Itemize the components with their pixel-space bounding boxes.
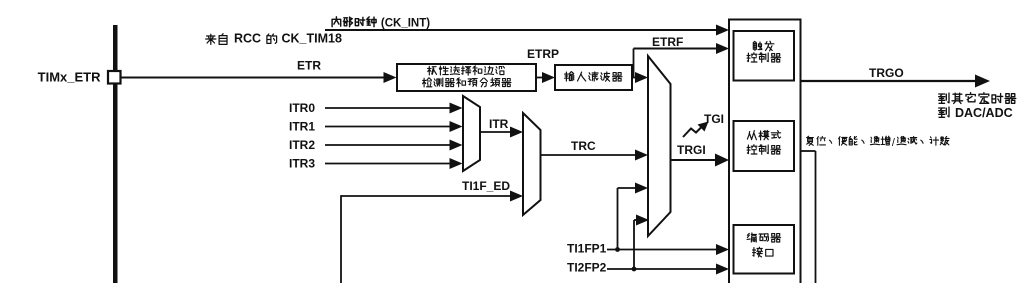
svg-text:(CK_INT): (CK_INT) (381, 18, 430, 30)
svg-text:ITR3: ITR3 (289, 156, 315, 170)
svg-text:ETRP: ETRP (527, 47, 559, 61)
svg-text:DAC/ADC: DAC/ADC (955, 106, 1013, 120)
svg-text:TRGI: TRGI (677, 143, 706, 157)
svg-text:TI1F_ED: TI1F_ED (462, 179, 510, 193)
svg-text:ITR: ITR (489, 117, 509, 131)
svg-text:/: / (892, 137, 896, 149)
svg-text:TIMx_ETR: TIMx_ETR (38, 70, 101, 85)
svg-text:ITR2: ITR2 (289, 138, 315, 152)
svg-text:TI1FP1: TI1FP1 (567, 242, 607, 256)
svg-text:ITR1: ITR1 (289, 119, 315, 133)
svg-text:ETRF: ETRF (652, 35, 683, 49)
svg-text:TRGO: TRGO (869, 66, 904, 80)
svg-text:TI2FP2: TI2FP2 (567, 261, 607, 275)
svg-text:ETR: ETR (297, 59, 321, 73)
svg-text:RCC: RCC (234, 32, 261, 46)
svg-text:CK_TIM18: CK_TIM18 (282, 32, 342, 46)
svg-text:TRC: TRC (571, 139, 596, 153)
svg-text:TGI: TGI (704, 112, 724, 126)
svg-text:ITR0: ITR0 (289, 101, 315, 115)
